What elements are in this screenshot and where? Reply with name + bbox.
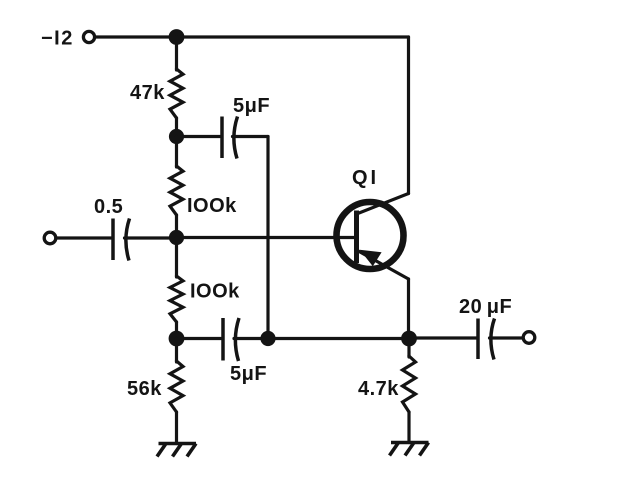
wire C0.5 to base node [125,236,177,239]
wire C5uF top to corner [233,135,269,138]
wire node B1 to C 5uF top [177,135,222,138]
resistor 56k [170,361,183,412]
wire R100k lower to node E [175,322,178,339]
wire emitter down to node F [407,279,410,339]
svg-text:20 μF: 20 μF [459,296,512,318]
node F junction [401,331,417,347]
svg-text:4.7k: 4.7k [358,378,399,400]
resistor 47k [170,69,183,118]
wire node F to R 4.7k [407,339,410,358]
capacitor 0.5 input [113,219,130,261]
ground left [157,444,196,457]
transistor Q1 [337,194,409,280]
capacitor 5uF bottom [223,318,239,361]
ground right [390,443,429,456]
terminal input [44,232,56,244]
resistor 100k lower [170,276,183,322]
wire R100k upper to node base [175,215,178,238]
wire collector up to rail [407,37,410,194]
resistor 100k upper [170,166,183,215]
node B1 junction [169,129,184,144]
svg-text:0.5: 0.5 [94,196,123,218]
resistor 4.7k [403,356,416,412]
wire top supply rail [95,35,409,38]
wire R4.7k to ground [407,412,410,443]
wire top node to R 47k [175,37,178,70]
svg-text:QI: QI [352,167,379,189]
wire node B1 to R 100k upper [175,137,178,168]
wire node E to C 5uF bottom [177,337,223,340]
capacitor 5uF top [222,117,238,159]
svg-text:5μF: 5μF [230,363,267,385]
node D junction [260,331,275,346]
collector line [357,194,409,215]
svg-text:5μF: 5μF [233,95,270,117]
wire node F to C 20uF [409,336,477,339]
node top junction [169,29,185,45]
svg-text:IOOk: IOOk [187,195,237,217]
terminal -12 supply [83,31,94,42]
terminal output [523,332,535,344]
svg-text:47k: 47k [130,82,165,104]
wire corner down to node D [266,137,269,339]
svg-text:56k: 56k [127,378,162,400]
emitter arrow [362,251,380,265]
emitter line [357,250,409,279]
wire node D to emitter node [268,337,409,340]
svg-text:IOOk: IOOk [190,281,240,303]
wire base node to R 100k lower [175,238,178,278]
node E junction [169,331,185,347]
node base junction [169,230,184,245]
wire input terminal to C 0.5 [56,236,112,239]
wire C20uF to output terminal [490,336,524,339]
wire base node to transistor base [177,236,357,239]
wire C5uF bottom to node D [234,337,268,340]
capacitor 20uF [478,319,495,360]
wire node E to R 56k [175,339,178,363]
wire R56k to ground [175,412,178,444]
svg-text:−I2: −I2 [41,28,74,50]
wire R47k to node B1 [175,118,178,137]
